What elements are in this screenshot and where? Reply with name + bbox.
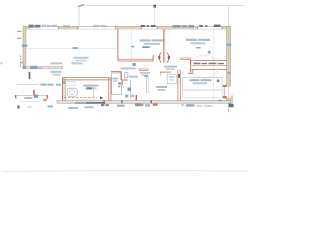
wall end dark cap	[23, 66, 26, 69]
right room small blue mark	[196, 47, 201, 48]
level line blue dash	[73, 47, 79, 49]
window label smudge faint left	[42, 25, 57, 27]
bottom wall red tick 1	[103, 100, 105, 104]
dimension tick middle dark	[153, 5, 156, 8]
kitchen counter step red	[188, 70, 193, 73]
dimension line top horizontal	[79, 5, 245, 7]
top wall tan segment 2	[59, 27, 79, 29]
interior door leaf gray	[146, 77, 148, 94]
red tick above bottom wall	[136, 95, 137, 100]
right room label line1	[186, 39, 210, 41]
bathroom top wall red double	[63, 77, 111, 79]
bottom text below bathroom	[68, 106, 94, 109]
entry label line1	[51, 62, 63, 64]
right room label line2	[191, 42, 206, 44]
top wall base lines full length	[23, 25, 231, 27]
porch dark post	[29, 72, 31, 79]
bathroom corner blue tick	[63, 81, 65, 84]
bottom right dark mark	[229, 104, 234, 108]
corner tick bottom right blue	[218, 100, 222, 102]
top wall tan segment corner left	[23, 27, 30, 29]
entry inner label line1	[51, 71, 62, 73]
door wall red double vertical	[162, 29, 164, 63]
right wall door jambs red	[223, 85, 227, 87]
storage blue dot	[217, 80, 220, 83]
middle room blue tick under U	[131, 46, 134, 48]
shaft rectangle	[112, 73, 122, 94]
porch step line 1	[18, 84, 39, 86]
wc partition vertical gray	[130, 80, 132, 99]
window label smudge dark left	[29, 25, 41, 28]
right outside small tan stub	[231, 95, 233, 102]
window 4 dash marks	[199, 25, 220, 28]
interior red wall U vertical	[117, 29, 119, 60]
storage label text line2	[193, 82, 208, 84]
bathroom left wall	[62, 78, 65, 104]
middle room label underline blue	[142, 46, 149, 48]
left margin tick 2	[17, 38, 21, 39]
bathroom label line1	[84, 85, 99, 87]
interior red wall U bottom double	[118, 58, 154, 60]
hallway lower door red double	[177, 70, 179, 101]
WC red wall vertical	[120, 72, 122, 80]
bathroom faint gray line above wall	[79, 98, 95, 100]
top wall tan segment right corner	[222, 27, 230, 29]
door label small text	[164, 66, 177, 68]
entrance door mark on hall wall	[30, 66, 37, 69]
storage room rectangle	[182, 78, 222, 90]
kitchen counter mid line red	[191, 65, 227, 67]
bottom wall dark segment below bathroom	[86, 102, 105, 104]
right room blue square mark	[208, 51, 211, 53]
WC label text	[129, 76, 138, 78]
kitchen stub wall red	[181, 58, 191, 60]
kitchen counter left vertical red	[190, 60, 192, 73]
dimension tick left	[78, 5, 84, 7]
bathroom shower red dashed line	[64, 97, 97, 99]
window 3 dash marks	[141, 25, 156, 27]
top wall jamb marks	[58, 26, 223, 29]
storage label text line1	[190, 79, 212, 81]
entry inner label line2	[53, 74, 61, 76]
dimension extension line right vertical cyan	[228, 5, 230, 112]
porch step red tick right	[47, 95, 48, 99]
closet box left of hall wall	[167, 74, 176, 84]
right exterior wall	[227, 26, 231, 103]
bathroom right wall red double	[108, 78, 110, 101]
hallway lower wall red horizontal	[160, 71, 171, 73]
bottom exterior wall	[57, 101, 231, 104]
bottom text mid blue	[117, 105, 125, 107]
left edge speck	[1, 62, 3, 64]
bottom wall red tick 3	[150, 100, 152, 103]
cyan dimension line overlay on right wall	[228, 26, 230, 112]
red thin vertical right of shaft	[122, 80, 124, 86]
bottom wall red tick 2	[121, 100, 122, 103]
entry label right line1	[72, 62, 83, 64]
left wall window tick	[22, 45, 27, 47]
middle room label line2	[144, 43, 160, 45]
top wall tan segment 4	[157, 27, 197, 29]
upper small label near wc	[140, 72, 150, 74]
bottom text right faint	[181, 104, 184, 106]
porch blue arrow	[34, 95, 38, 98]
porch red post 2	[33, 90, 35, 95]
on-wall blue text right section	[173, 25, 195, 28]
bathroom fixture sink dashes	[66, 82, 76, 86]
shaft small text	[112, 78, 118, 80]
dimension line vertical x213	[213, 30, 215, 100]
door label line2	[166, 68, 175, 70]
porch label	[24, 97, 32, 99]
porch blue text right of step	[41, 84, 62, 86]
level line living room horizontal cyan	[26, 48, 117, 50]
bottom tiny dark mark far left	[18, 105, 20, 108]
U room small label	[121, 67, 136, 69]
page bottom edge	[2, 170, 248, 173]
wc blue bits above bottom wall	[125, 95, 128, 98]
bottom marks below wall x100	[101, 104, 109, 107]
left wall lower blue tick	[20, 62, 23, 64]
interior red wall U right stub	[152, 55, 154, 61]
bottom marks x135	[135, 104, 142, 107]
storage room rectangle lower	[182, 90, 222, 97]
hall room label line2	[158, 89, 166, 91]
bottom marks x153 red	[153, 104, 158, 106]
living room label	[74, 57, 89, 59]
wc blue icon lower	[128, 88, 131, 91]
kitchen counter text dashes	[194, 63, 225, 65]
left exterior wall	[23, 26, 26, 68]
window 2 label smudge	[93, 25, 107, 27]
red stub above hall	[139, 69, 148, 70]
bottom text below wall left teal	[48, 106, 54, 108]
porch faint lower line	[20, 101, 40, 103]
right wall blue mark lower	[227, 72, 231, 74]
right wall door gap	[226, 87, 231, 98]
door swing arc right	[167, 52, 169, 62]
top wall tan segment 3	[116, 27, 141, 29]
dimension line vertical x131	[130, 30, 132, 66]
porch dashed line vertical	[20, 56, 22, 68]
porch small red mark lower	[43, 99, 47, 101]
middle room label line1	[140, 39, 165, 41]
porch step red tick left	[15, 95, 17, 98]
bathroom fixture toilet	[67, 88, 77, 96]
dimension extension line left vertical	[78, 5, 80, 26]
hall top wall horizontal left	[23, 67, 63, 69]
bathroom faint red vertical	[93, 87, 95, 98]
kitchen counter top red	[191, 59, 227, 61]
right wall window tick	[226, 44, 231, 46]
hall room label line1	[156, 86, 167, 88]
door swing arc left	[159, 52, 161, 62]
U room blue icon	[133, 63, 136, 66]
WC red wall horizontal	[111, 71, 122, 73]
shaft inner dark dashes	[118, 82, 121, 84]
dining table ellipse	[191, 55, 218, 78]
blue tick at door leaf top	[144, 75, 148, 77]
text above wall seg2	[63, 25, 70, 27]
left margin tick 1	[17, 31, 21, 32]
dimension extension line middle vertical	[154, 8, 156, 27]
kitchen counter bottom red	[191, 69, 227, 71]
dark arrow in bathroom bottom	[100, 97, 103, 100]
living room label line2	[76, 60, 87, 62]
porch step line 2	[15, 95, 48, 97]
bathroom label line2	[86, 88, 97, 90]
WC icon blue	[125, 73, 128, 78]
red bits right of WC	[122, 79, 127, 80]
